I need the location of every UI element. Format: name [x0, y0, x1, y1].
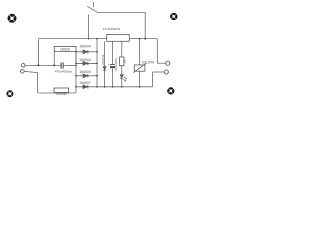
- terminal output minus: [164, 70, 168, 74]
- wire to output terminal minus: [153, 71, 165, 73]
- LED D5: [120, 75, 124, 78]
- terminal input N: [21, 70, 25, 74]
- wire N down vertical: [37, 73, 39, 93]
- junction R1 left lead on L line: [53, 64, 55, 66]
- svg-text:DC24V: DC24V: [142, 61, 154, 65]
- junction L line on bridge left rail: [75, 65, 77, 67]
- svg-text:2k2: 2k2: [124, 59, 127, 64]
- wire bypass right vertical: [144, 13, 146, 39]
- junction D3 right: [96, 75, 98, 77]
- watermark icon bottom-left: [6, 90, 13, 97]
- wire R1 left down lead: [53, 51, 55, 65]
- resistor box series top 15-220VATR: [107, 35, 130, 42]
- wire led branch: [121, 41, 123, 57]
- watermark icon bottom-right: [167, 87, 174, 94]
- switch S1 contact tick: [93, 2, 95, 7]
- diode D2 1N4004 row: [76, 62, 97, 66]
- wire bridge left rail: [75, 50, 77, 93]
- junction bypass vertical on top rail: [144, 38, 146, 40]
- resistor R2 1W220R: [54, 88, 69, 92]
- wire cap C1 to bridge: [64, 64, 76, 66]
- diode D4 1N4007 row: [76, 85, 97, 89]
- capacitor C2 electrolytic 1000uF/25v: [110, 64, 115, 66]
- wire N bottom rail: [38, 92, 76, 94]
- junction relay on dc minus rail: [139, 86, 141, 88]
- wire top bypass horizontal: [97, 12, 145, 14]
- junction D1 left: [75, 51, 77, 53]
- junction C2 on dc minus rail: [112, 86, 114, 88]
- svg-text:1W100: 1W100: [60, 48, 70, 52]
- svg-text:475n/400vac: 475n/400vac: [55, 69, 73, 73]
- svg-text:1W220R: 1W220R: [55, 92, 66, 96]
- watermark icon top-right: [170, 13, 177, 20]
- diode D3 1N4004 row: [76, 74, 97, 78]
- watermark icon top-left: [8, 14, 17, 23]
- junction bridge right rail on top rail: [96, 38, 98, 40]
- wire top rail: [39, 38, 158, 40]
- wire left riser: [38, 39, 40, 66]
- wire cap C2 branch: [112, 41, 114, 64]
- terminal output plus: [166, 61, 170, 65]
- junction D3 left: [75, 75, 77, 77]
- junction led branch on dc minus rail: [121, 86, 123, 88]
- svg-text:15-220VATR: 15-220VATR: [103, 27, 121, 31]
- resistor R1 1W100: [54, 46, 76, 51]
- wire right output vertical: [156, 39, 158, 64]
- wire switch lower vertical: [88, 15, 90, 39]
- junction D4 left: [75, 86, 77, 88]
- wire zener branch: [104, 41, 106, 66]
- LED arrows: [123, 77, 126, 81]
- svg-text:1N4004: 1N4004: [79, 45, 91, 49]
- wire relay branch: [139, 39, 141, 65]
- svg-text:1N4007: 1N4007: [79, 81, 91, 85]
- wire input line N: [24, 71, 37, 72]
- terminal input L: [21, 64, 25, 68]
- wire R1 right down lead: [75, 51, 77, 65]
- wire input line L: [25, 64, 61, 66]
- wire dc minus rail: [97, 86, 153, 88]
- junction zener on dc minus rail: [104, 86, 106, 88]
- svg-text:1N4004: 1N4004: [79, 58, 91, 62]
- junction D2 right: [96, 63, 98, 65]
- junction switch riser on top rail: [88, 38, 90, 40]
- relay RL1 coil box: [134, 65, 145, 71]
- junction D2 left: [75, 63, 77, 65]
- zener diode ZD1: [103, 66, 106, 70]
- relay diagonal arrow: [133, 63, 146, 72]
- junction D4 right: [96, 86, 98, 88]
- wire to output terminal plus: [157, 62, 165, 64]
- capacitor C1 475n/400vac: [60, 62, 62, 68]
- junction relay riser on top rail: [139, 38, 141, 40]
- junction left riser on L line: [38, 64, 40, 66]
- wire dc minus riser: [152, 72, 154, 87]
- wire bridge right rail: [96, 39, 98, 87]
- svg-text:+: +: [108, 62, 110, 66]
- svg-text:24V/1W: 24V/1W: [101, 54, 105, 65]
- diode D1 1N4004 row: [76, 50, 97, 54]
- svg-text:1N4004: 1N4004: [79, 70, 91, 74]
- svg-text:1000uF/25v: 1000uF/25v: [114, 57, 118, 71]
- junction D1 right: [96, 51, 98, 53]
- resistor R3 led series: [120, 57, 124, 66]
- switch S1 lever: [87, 6, 97, 12]
